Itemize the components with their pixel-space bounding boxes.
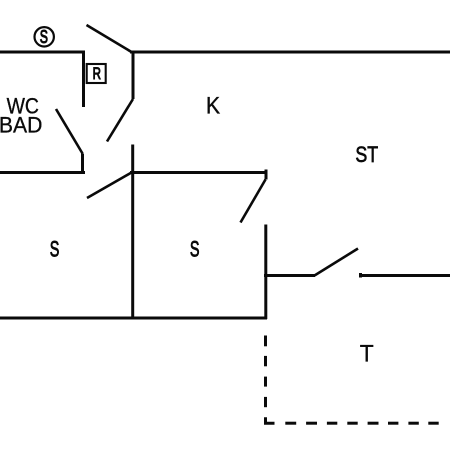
svg-text:BAD: BAD [0, 112, 42, 138]
svg-text:S: S [190, 236, 200, 261]
svg-text:ST: ST [355, 143, 378, 167]
svg-text:R: R [93, 65, 101, 84]
svg-text:K: K [206, 91, 220, 118]
svg-text:T: T [360, 340, 374, 367]
svg-text:S: S [40, 28, 48, 48]
svg-text:S: S [50, 236, 60, 261]
